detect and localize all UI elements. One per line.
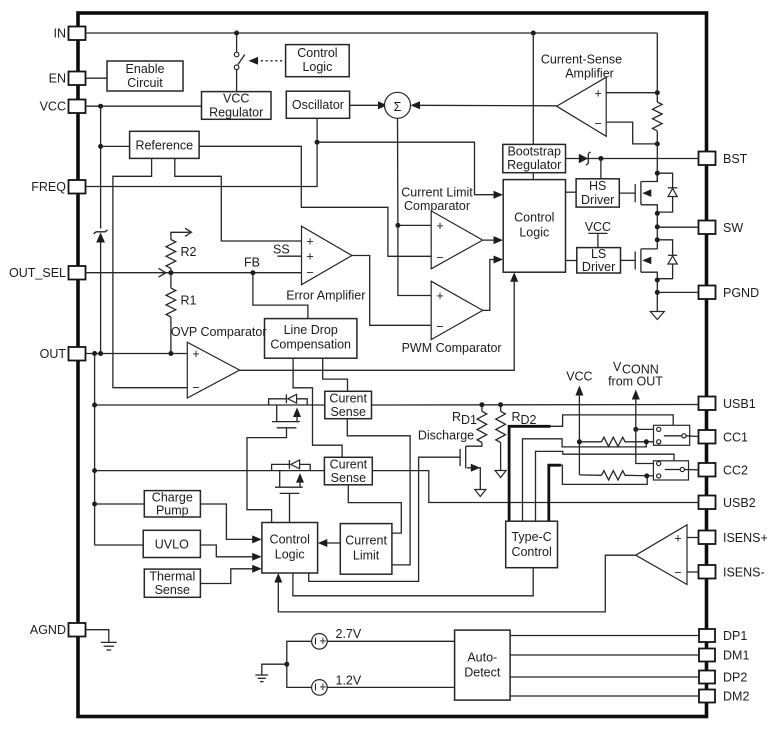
svg-text:VCC: VCC — [40, 100, 66, 114]
node junction oscillator bottom branch — [315, 140, 320, 145]
wire VCC pin to VCC Regulator — [87, 105, 202, 107]
svg-text:Control: Control — [297, 46, 337, 60]
svg-text:OUT_SEL: OUT_SEL — [9, 266, 66, 280]
resistor RD2 — [496, 405, 537, 471]
node junction LS drain — [655, 237, 660, 242]
pin SW — [699, 221, 744, 236]
svg-text:+: + — [306, 234, 313, 248]
svg-text:Logic: Logic — [302, 60, 332, 74]
transistor Q5 discharge NMOS — [460, 446, 480, 489]
svg-text:Driver: Driver — [581, 193, 614, 207]
switch CC2 — [653, 461, 688, 480]
svg-text:PGND: PGND — [723, 286, 759, 300]
node junction sigma output at CLC plus — [395, 223, 400, 228]
box Reference — [130, 131, 200, 158]
svg-text:+: + — [674, 532, 681, 546]
svg-text:FB: FB — [244, 256, 260, 270]
diode LS body diode — [657, 240, 677, 280]
wire error amp output to PWM minus — [352, 256, 431, 326]
box Line Drop Compensation — [265, 319, 357, 359]
op-amp Error Amplifier — [302, 226, 352, 285]
pin DP2 — [699, 671, 747, 685]
wire CS2 bottom to Current Limit — [348, 485, 401, 533]
node junction BST line to HS driver supply — [598, 156, 603, 161]
svg-text:DP1: DP1 — [723, 629, 747, 643]
svg-text:Logic: Logic — [275, 548, 305, 562]
svg-text:Comparator: Comparator — [404, 199, 470, 213]
wire OVP output to Control Logic mid bottom — [240, 277, 515, 371]
svg-text:Current Limit: Current Limit — [401, 186, 473, 200]
wire Current-Sense Amplifier output into summing node — [416, 104, 557, 107]
box Control Logic (mid) — [503, 180, 565, 273]
svg-text:CC1: CC1 — [723, 431, 748, 445]
svg-text:Detect: Detect — [464, 666, 501, 680]
wire CC1 switch to pin — [686, 435, 699, 438]
svg-text:R2: R2 — [181, 245, 197, 259]
wire oscillator branch to Control Logic (mid) input — [317, 142, 499, 195]
svg-text:HS: HS — [589, 179, 606, 193]
wire PWM output up into Control Logic mid — [483, 260, 499, 311]
wire EN pin to Enable Circuit — [87, 77, 108, 79]
IC boundary frame — [78, 13, 707, 717]
resistor Rp1 CC1 — [579, 437, 656, 446]
wire bootstrap bottom to Control Logic mid — [532, 173, 534, 180]
svg-text:Current: Current — [345, 534, 387, 548]
pin USB1 — [699, 397, 756, 412]
box VCC Regulator — [202, 92, 272, 120]
svg-text:Pump: Pump — [156, 503, 189, 517]
box HS Driver — [576, 179, 619, 207]
wire Auto-Detect to DP1 — [510, 635, 699, 637]
wire charge pump output to Control Logic bottom — [200, 504, 257, 539]
resistor sense on rail — [653, 102, 663, 131]
svg-text:Sense: Sense — [331, 471, 366, 485]
svg-text:1.2V: 1.2V — [336, 673, 362, 687]
node junction VCONN at CC1 — [633, 427, 638, 432]
node junction VCC rail top — [98, 104, 103, 109]
svg-text:Thermal: Thermal — [149, 569, 195, 583]
wire CLC output to Control Logic mid — [483, 239, 499, 241]
wire PGND line to pin — [657, 291, 698, 293]
diode HS body diode — [657, 173, 677, 213]
svg-text:Logic: Logic — [519, 226, 549, 240]
transistor Q1 HS MOSFET — [635, 173, 657, 213]
svg-text:BST: BST — [723, 152, 748, 166]
wire CS amp minus input to rail lower node — [606, 122, 657, 144]
box Type-C Control — [506, 521, 558, 568]
svg-text:Control: Control — [514, 211, 554, 225]
wire sigma output to comparator plus inputs — [398, 118, 432, 295]
node junction rail at pass FET1 — [92, 403, 97, 408]
op-amp Current-Sense Amplifier — [557, 77, 607, 136]
svg-text:CC2: CC2 — [723, 464, 748, 478]
box Curent Sense upper — [325, 391, 372, 419]
svg-text:Σ: Σ — [394, 100, 402, 114]
pin EN — [49, 72, 86, 86]
wire Control Logic mid to LS Driver — [566, 260, 577, 262]
source V2 1.2V — [312, 673, 362, 695]
node junction rail at charge pump — [92, 502, 97, 507]
wire OUT pin line to OVP plus — [87, 353, 188, 355]
pin IN — [54, 27, 86, 41]
svg-text:UVLO: UVLO — [155, 537, 189, 551]
label VCONN from OUT — [608, 360, 663, 389]
svg-text:ISENS+: ISENS+ — [723, 531, 768, 545]
wire Reference left to VCC rail — [101, 145, 130, 147]
box UVLO — [143, 530, 200, 557]
svg-text:FREQ: FREQ — [31, 180, 66, 194]
ground arrow below discharge — [475, 490, 486, 497]
switch CC1 — [654, 425, 690, 445]
comparator OVP — [187, 342, 239, 398]
svg-text:IN: IN — [54, 27, 67, 41]
svg-text:Line Drop: Line Drop — [284, 323, 338, 337]
wire VCONN continues to CC2 — [636, 429, 657, 463]
svg-text:VCC: VCC — [223, 92, 249, 106]
svg-text:Type-C: Type-C — [511, 530, 551, 544]
svg-text:Error Amplifier: Error Amplifier — [286, 289, 365, 303]
pin FREQ — [31, 180, 85, 194]
wire pass FET1 rail from downfeed to CS1 — [95, 404, 325, 406]
pin AGND — [30, 623, 86, 637]
svg-text:D1: D1 — [461, 413, 477, 427]
wire VCC vertical rail down to OUT line — [100, 106, 102, 228]
node junction VCC rail at Reference — [98, 144, 103, 149]
svg-text:Regulator: Regulator — [507, 158, 561, 172]
wire Current Limit to Control Logic bottom — [322, 542, 340, 544]
node junction PGND — [655, 290, 660, 295]
pin DM2 — [699, 690, 749, 704]
node junction LS source — [655, 278, 660, 283]
wire thick Type-C line4 to CC2 resistor node — [549, 465, 647, 521]
pin OUT_SEL — [9, 266, 85, 280]
wire Reference bottom-right output to Error Amplifier plus — [175, 158, 302, 241]
wire VCC supply arrow down to CC resistors — [575, 386, 583, 475]
node junction USB1 at RD2 — [498, 402, 503, 407]
box Auto-Detect — [455, 630, 511, 700]
wire LS Driver to LS gate — [621, 259, 636, 261]
svg-text:DM2: DM2 — [723, 690, 749, 704]
resistor Rp2 CC2 — [579, 471, 656, 480]
wire Type-C line3 to CC2 switch control — [536, 451, 675, 521]
wire UVLO output to Control Logic bottom — [200, 545, 257, 557]
wire CS1 bottom to Current Limit — [347, 419, 410, 565]
svg-text:Sense: Sense — [155, 583, 190, 597]
wire AGND pin to ground — [87, 630, 109, 643]
wire bootstrap output to BST pin — [566, 158, 699, 160]
svg-text:Curent: Curent — [330, 458, 368, 472]
ground symbol power ground — [650, 312, 664, 320]
transistor Q4 pass PMOS lower — [272, 460, 311, 523]
wire power rail upper segment — [656, 33, 658, 102]
pin PGND — [699, 286, 760, 301]
svg-text:−: − — [595, 117, 602, 131]
svg-text:+: + — [436, 289, 443, 303]
summing node sigma — [385, 92, 411, 118]
wire ISENS+ pin to amp — [687, 537, 699, 539]
svg-text:PWM Comparator: PWM Comparator — [402, 341, 502, 355]
svg-text:Limit: Limit — [353, 549, 380, 563]
svg-text:Control: Control — [270, 533, 310, 547]
wire Type-C line2 to CC1 resistor node — [523, 439, 647, 521]
svg-text:OVP Comparator: OVP Comparator — [171, 325, 267, 339]
box Thermal Sense — [144, 569, 200, 597]
node junction OUT at downfeed rail — [92, 351, 97, 356]
wire CS1 to USB1 pin — [372, 404, 699, 407]
svg-text:from OUT: from OUT — [608, 375, 663, 389]
svg-text:AGND: AGND — [30, 623, 66, 637]
svg-text:Auto-: Auto- — [467, 651, 497, 665]
svg-text:Reference: Reference — [135, 138, 193, 152]
node junction HS drain — [655, 171, 660, 176]
ground symbol AGND — [101, 642, 117, 650]
wire 2.7V source to Auto-Detect — [327, 640, 454, 642]
label VCC above LS driver — [585, 220, 611, 248]
svg-text:Sense: Sense — [330, 405, 365, 419]
open arrow on OUT_SEL line — [159, 268, 166, 277]
wire ISENS amp output to Control Logic bottom — [278, 555, 635, 612]
svg-text:R: R — [512, 410, 521, 424]
source V1 2.7V — [312, 627, 362, 649]
wire SW line to pin — [657, 226, 698, 228]
svg-text:Bootstrap: Bootstrap — [507, 145, 561, 159]
svg-text:EN: EN — [49, 72, 66, 86]
pin ISENS- — [699, 565, 765, 580]
svg-text:Driver: Driver — [582, 260, 615, 274]
svg-text:Discharge: Discharge — [418, 429, 474, 443]
svg-text:+: + — [192, 347, 199, 361]
svg-text:ı: ı — [314, 634, 317, 648]
box Charge Pump — [144, 490, 200, 517]
wire VCONN supply arrow down to CC switches — [632, 390, 640, 430]
ground symbol battery ground — [255, 675, 268, 682]
svg-text:SW: SW — [723, 221, 743, 235]
pin OUT — [40, 347, 86, 361]
svg-text:Oscillator: Oscillator — [292, 98, 344, 112]
wire HS Driver to HS gate — [619, 192, 635, 194]
svg-text:+: + — [319, 680, 326, 694]
node junction rail at CS amp plus — [655, 90, 660, 95]
pin ISENS+ — [699, 531, 768, 546]
node junction OUT at zener rail — [98, 351, 103, 356]
box Enable Circuit — [107, 61, 183, 91]
op-amp ISENS current sense amplifier — [636, 525, 687, 585]
wire FREQ pin to oscillator bottom — [87, 118, 318, 186]
wire IN pin to top-right rail — [87, 32, 658, 34]
enable switch S1 — [234, 35, 245, 92]
wire rail between resistor and HS drain — [656, 131, 658, 182]
wire ISENS- pin to amp — [687, 571, 699, 573]
node junction R1 R2 divider — [168, 270, 173, 275]
wire OUT_SEL pin to FB node and error amp minus — [87, 272, 302, 274]
svg-text:DP2: DP2 — [723, 671, 747, 685]
svg-text:ı: ı — [314, 680, 317, 694]
pin CC2 — [699, 463, 749, 478]
svg-text:USB2: USB2 — [723, 496, 756, 510]
svg-text:−: − — [436, 251, 443, 265]
pin DP1 — [699, 629, 747, 643]
pin USB2 — [699, 496, 756, 511]
wire VCONN to CC1 switch top contact — [636, 428, 657, 430]
pin VCC — [40, 100, 86, 114]
svg-text:−: − — [674, 566, 681, 580]
wire CC2 switch to pin — [684, 469, 698, 471]
wire bootstrap top to IN line — [532, 33, 534, 144]
svg-text:Enable: Enable — [126, 62, 165, 76]
wire Reference bottom-left output to OVP minus — [113, 158, 187, 387]
svg-text:Charge: Charge — [152, 490, 193, 504]
transistor Q2 LS MOSFET — [635, 249, 657, 280]
wire HS driver supply from BST line — [600, 159, 602, 179]
svg-text:+: + — [319, 634, 326, 648]
wire Type-C control to Control Logic bottom — [293, 568, 533, 596]
svg-text:SS: SS — [273, 243, 290, 257]
node junction FB — [250, 270, 255, 275]
wire left downfeed rail from OUT line — [94, 354, 96, 546]
wire Line Drop right output to CS1 top — [323, 358, 348, 391]
box Control Logic (bottom) — [262, 523, 318, 574]
node junction HS source — [655, 211, 660, 216]
resistor R1 — [166, 275, 196, 353]
node junction Rp2 right — [644, 473, 649, 478]
pin CC1 — [699, 430, 749, 445]
wire thick Type-C control to CC1 switch — [509, 415, 673, 521]
svg-text:Curent: Curent — [329, 392, 367, 406]
node junction on IN line at enable switch — [234, 31, 239, 36]
box Current Limit — [340, 524, 392, 575]
node junction SW — [655, 224, 660, 229]
wire pass FET2 rail from downfeed to CS2 — [95, 470, 325, 472]
wire CS2 right to USB2 feed — [372, 471, 698, 503]
svg-text:VCC: VCC — [566, 370, 592, 384]
wire rail LS source to PGND and ground — [656, 280, 658, 312]
wire Thermal Sense output to Control Logic bottom — [200, 569, 257, 584]
wire Oscillator output to summing node — [350, 104, 383, 106]
node junction rail at sense resistor bottom — [655, 141, 660, 146]
svg-text:DM1: DM1 — [723, 649, 749, 663]
wire UVLO input — [95, 544, 144, 546]
node junction on IN line at bootstrap feed — [531, 31, 536, 36]
wire Reference right output to Current Limit Comparator minus — [199, 146, 431, 256]
svg-text:VCC: VCC — [585, 220, 611, 234]
svg-text:Circuit: Circuit — [127, 76, 163, 90]
node junction USB1 at RD1 — [479, 402, 484, 407]
svg-text:Regulator: Regulator — [209, 105, 263, 119]
wire Control Logic bottom to discharge gate — [309, 457, 460, 581]
svg-text:−: − — [192, 381, 199, 395]
wire charge pump input — [95, 503, 145, 505]
box Curent Sense lower — [324, 457, 372, 485]
zener diode D1 on VCC rail — [94, 230, 108, 243]
svg-text:V: V — [613, 360, 622, 374]
box Bootstrap Regulator — [503, 144, 566, 172]
node junction Rp1 right — [644, 439, 649, 444]
svg-text:Compensation: Compensation — [270, 337, 351, 351]
ground arrow below RD2 — [495, 471, 506, 478]
diode bootstrap — [579, 152, 591, 165]
wire Auto-Detect to DM1 — [510, 654, 699, 656]
svg-text:ISENS-: ISENS- — [723, 566, 765, 580]
pin BST — [699, 152, 748, 167]
wire FB node down to Line Drop Compensation — [253, 273, 308, 319]
wire 1.2V source to Auto-Detect — [327, 686, 454, 688]
resistor RD1 — [452, 405, 487, 446]
box Control Logic (top) — [286, 45, 350, 77]
svg-text:USB1: USB1 — [723, 397, 756, 411]
wire Control Logic mid to HS Driver — [566, 191, 577, 193]
svg-text:R1: R1 — [181, 294, 197, 308]
wire CS amp plus input from rail — [606, 92, 657, 94]
transistor Q3 pass PMOS upper — [247, 394, 307, 522]
box Oscillator — [286, 91, 349, 118]
wire sources common to ground — [287, 641, 312, 687]
node junction OUT at R1 — [168, 351, 173, 356]
box LS Driver — [577, 247, 621, 274]
svg-text:+: + — [595, 87, 602, 101]
svg-text:2.7V: 2.7V — [336, 627, 362, 641]
comparator Current Limit — [431, 211, 483, 269]
svg-text:R: R — [452, 410, 461, 424]
node junction rail at pass FET2 — [92, 468, 97, 473]
svg-text:OUT: OUT — [40, 347, 67, 361]
resistor R2 — [166, 228, 196, 270]
node junction VCC at Rp1 — [577, 439, 582, 444]
svg-text:+: + — [306, 250, 313, 264]
wire rail HS source to SW — [656, 213, 658, 249]
svg-text:Current-Sense: Current-Sense — [541, 53, 622, 67]
svg-text:Control: Control — [511, 545, 551, 559]
dotted control arrow from Control Logic to switch — [249, 57, 286, 65]
svg-text:+: + — [436, 219, 443, 233]
svg-text:−: − — [306, 266, 313, 280]
svg-text:LS: LS — [591, 247, 606, 261]
pin DM1 — [699, 649, 749, 663]
wire SS stub into error amp — [278, 255, 302, 257]
wire Auto-Detect to DM2 — [510, 695, 699, 697]
wire Line Drop left output to CS2 top — [293, 358, 342, 457]
wire Auto-Detect to DP2 — [510, 676, 699, 678]
svg-text:−: − — [436, 320, 443, 334]
comparator PWM — [431, 281, 483, 339]
